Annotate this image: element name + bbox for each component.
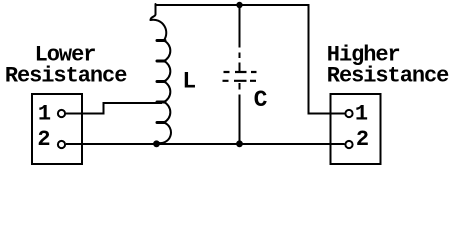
svg-text:C: C <box>254 87 268 113</box>
svg-text:1: 1 <box>38 101 51 126</box>
svg-text:2: 2 <box>37 127 49 152</box>
svg-text:L: L <box>182 69 196 95</box>
svg-text:1: 1 <box>355 101 368 126</box>
svg-text:2: 2 <box>356 127 368 152</box>
svg-text:Resistance: Resistance <box>327 64 449 89</box>
svg-text:Resistance: Resistance <box>5 64 127 89</box>
